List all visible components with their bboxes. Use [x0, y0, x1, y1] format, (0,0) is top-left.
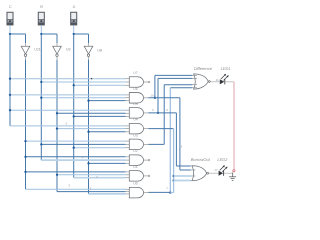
- svg-text:U11: U11: [34, 47, 40, 51]
- svg-text:B: B: [40, 4, 43, 9]
- svg-text:BorrowOut: BorrowOut: [191, 157, 211, 162]
- svg-text:3: 3: [90, 187, 92, 191]
- svg-text:U5: U5: [133, 102, 137, 106]
- svg-text:8: 8: [166, 108, 168, 112]
- svg-text:5: 5: [69, 184, 71, 188]
- svg-text:10: 10: [150, 94, 154, 98]
- svg-text:17: 17: [214, 168, 218, 172]
- svg-text:11: 11: [216, 78, 219, 82]
- svg-text:U0: U0: [133, 182, 137, 186]
- svg-text:LED1: LED1: [221, 66, 231, 71]
- svg-text:U2: U2: [133, 149, 137, 153]
- svg-text:U9: U9: [66, 47, 71, 51]
- svg-text:LED2: LED2: [217, 157, 228, 162]
- svg-text:U7: U7: [133, 71, 137, 75]
- svg-text:U6: U6: [133, 87, 137, 91]
- svg-text:Difference: Difference: [194, 66, 213, 71]
- svg-text:U3: U3: [133, 133, 137, 137]
- svg-text:9: 9: [152, 108, 154, 112]
- svg-text:U4: U4: [133, 118, 137, 122]
- svg-text:6: 6: [66, 122, 68, 126]
- svg-text:A: A: [73, 4, 76, 9]
- svg-text:U8: U8: [97, 48, 102, 52]
- svg-text:C: C: [9, 4, 12, 9]
- svg-text:7: 7: [166, 186, 168, 190]
- svg-text:13: 13: [179, 144, 183, 148]
- svg-text:U1: U1: [133, 165, 137, 169]
